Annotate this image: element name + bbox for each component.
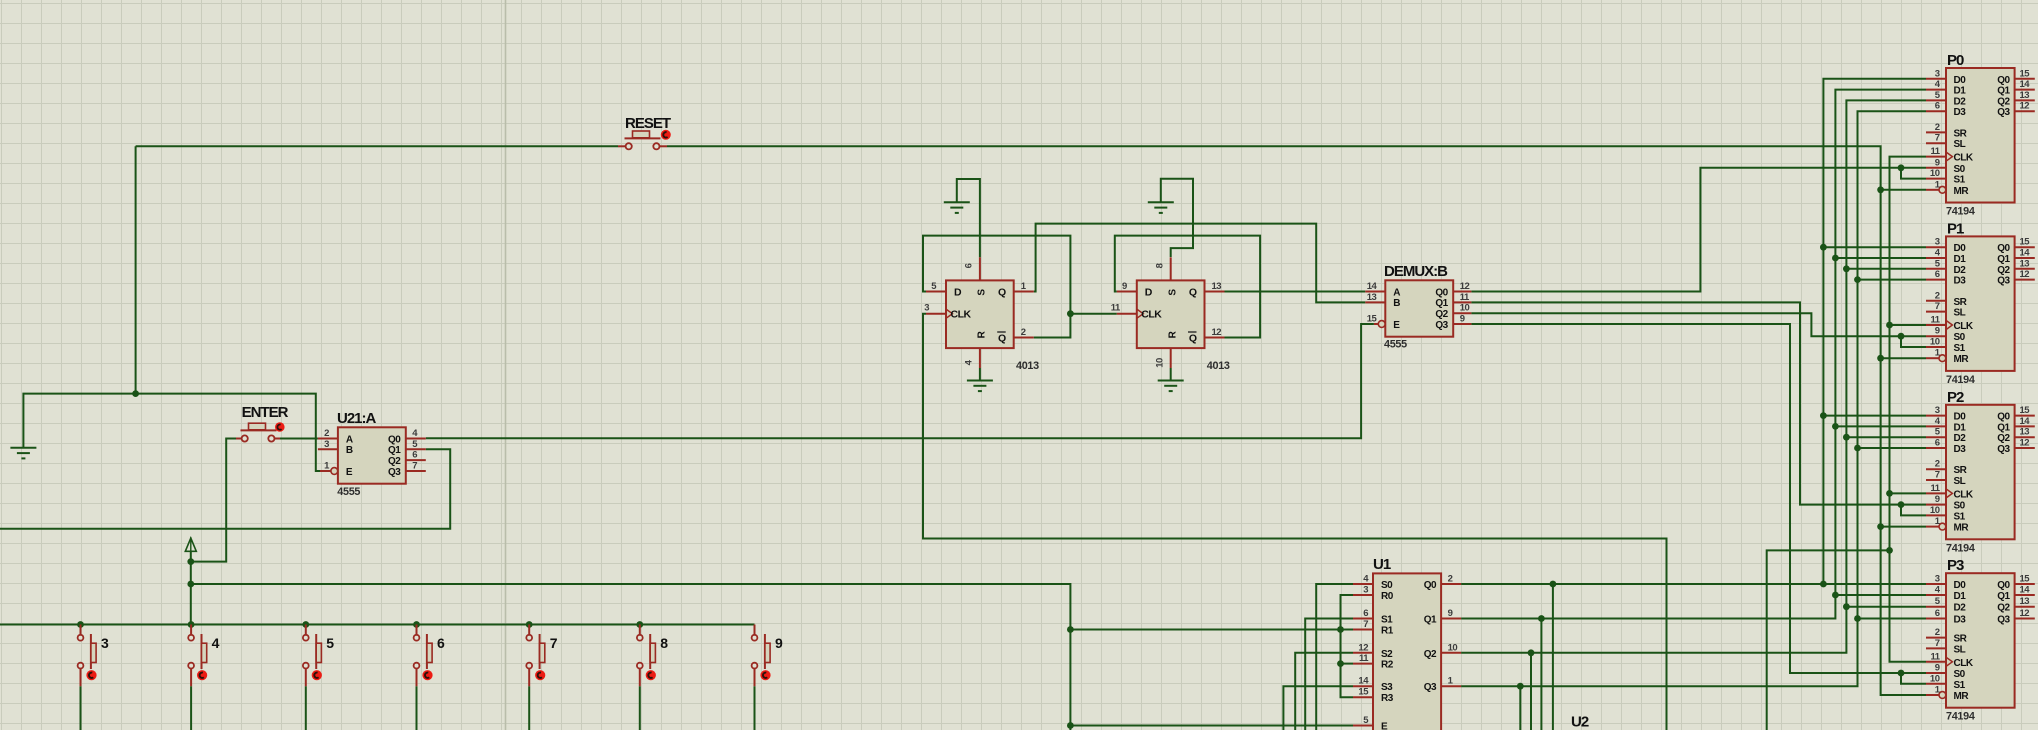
shift register P2 (74194) — [1926, 389, 2035, 555]
svg-text:2: 2 — [324, 428, 329, 439]
svg-text:E: E — [1381, 722, 1388, 730]
wire U21:A Q0 to DEMUX:B E (y438.3, up x1361.1) — [426, 324, 1374, 438]
svg-text:10: 10 — [1448, 642, 1458, 653]
key button 8 — [637, 625, 668, 687]
svg-text:A: A — [346, 434, 353, 445]
wire CLK vertical bus x1889.5 to CLK pins of P0..P3 — [1886, 157, 1926, 662]
wire FF2 Qbar feedback to D via x1260.1 and y235.6 — [1115, 236, 1260, 338]
wire FF1 Qbar feedback to D and FF2 CLK, junction at x1070.4 y313.7 — [923, 236, 1117, 338]
svg-text:D2: D2 — [1954, 265, 1967, 276]
svg-text:Q3: Q3 — [1997, 444, 2010, 455]
wire U1 S1 from U2 via x1305.2 — [1305, 619, 1353, 730]
svg-text:S0: S0 — [1954, 669, 1966, 680]
pushbutton RESET — [618, 115, 671, 149]
svg-text:7: 7 — [1935, 133, 1940, 144]
svg-text:RESET: RESET — [625, 115, 671, 132]
svg-text:7: 7 — [1935, 470, 1940, 481]
key button 9 — [752, 625, 783, 687]
svg-text:S0: S0 — [1381, 580, 1393, 591]
svg-text:11: 11 — [1111, 303, 1121, 314]
svg-text:14: 14 — [2020, 79, 2031, 90]
svg-text:Q1: Q1 — [1424, 615, 1437, 626]
svg-text:S3: S3 — [1381, 682, 1393, 693]
svg-text:14: 14 — [2020, 416, 2031, 427]
svg-text:Q1: Q1 — [1997, 86, 2010, 97]
svg-text:Q: Q — [998, 333, 1006, 345]
svg-text:9: 9 — [1935, 494, 1940, 505]
wire input terminal stem down to switch bus, branches at y561.6, y584 — [187, 552, 194, 625]
svg-text:MR: MR — [1954, 523, 1970, 534]
svg-text:Q3: Q3 — [1435, 320, 1448, 331]
svg-text:Q2: Q2 — [1997, 265, 2010, 276]
svg-text:S: S — [977, 289, 988, 296]
ground G3 above FF2 — [1148, 202, 1174, 213]
svg-text:14: 14 — [1358, 676, 1369, 687]
svg-text:D3: D3 — [1954, 615, 1967, 626]
wire FF1 Q up x1035.6, along y223.6, down x1316.2 to DEMUX:B pin B — [1034, 224, 1366, 303]
svg-text:2: 2 — [1448, 574, 1453, 585]
svg-text:11: 11 — [1460, 292, 1470, 303]
svg-text:Q1: Q1 — [1997, 254, 2010, 265]
svg-text:12: 12 — [2020, 101, 2030, 112]
ic U1 (quad latch, body continues off-screen) — [1353, 556, 1461, 730]
wire switch bus y624.5 with junctions at each key — [0, 621, 755, 628]
svg-text:7: 7 — [1363, 619, 1368, 630]
svg-text:SR: SR — [1954, 465, 1968, 476]
shift register P3 (74194) — [1926, 557, 2035, 723]
svg-text:5: 5 — [326, 635, 334, 651]
wire U1 S2 from U2 via x1295.2 — [1295, 653, 1353, 730]
svg-text:2: 2 — [1935, 627, 1940, 638]
pushbutton ENTER — [236, 404, 289, 442]
svg-text:D: D — [954, 287, 962, 299]
svg-text:13: 13 — [1367, 292, 1377, 303]
key button 6 — [414, 625, 445, 687]
wire U1 S0 from U2 via x1316.2 — [1316, 584, 1353, 730]
svg-text:8: 8 — [660, 635, 668, 651]
wire RESET-to-GND net: button left terminal, vertical x135.6, horizontal y393.6 to U21 E — [23, 146, 618, 471]
svg-text:CLK: CLK — [1954, 321, 1974, 332]
svg-text:Q: Q — [1189, 287, 1197, 299]
svg-text:6: 6 — [1363, 608, 1368, 619]
svg-text:SL: SL — [1954, 644, 1966, 655]
svg-text:12: 12 — [2020, 438, 2030, 449]
svg-text:12: 12 — [1212, 327, 1222, 338]
wire DEMUX:B Q0 to P0 S0/S1 via x1700.4 — [1471, 164, 1926, 291]
svg-text:8: 8 — [1154, 263, 1165, 268]
shift register P1 (74194) — [1926, 220, 2035, 386]
key button 7 — [526, 625, 557, 687]
svg-text:12: 12 — [2020, 608, 2030, 619]
svg-text:Q2: Q2 — [1997, 433, 2010, 444]
wire U1 R0..R3 common vertical x1340.5 — [1337, 595, 1353, 697]
svg-text:7: 7 — [1935, 638, 1940, 649]
key button 4 — [188, 625, 219, 687]
svg-text:CLK: CLK — [1954, 489, 1974, 500]
svg-text:13: 13 — [1212, 281, 1222, 292]
wire DEMUX:B Q2 to P1 S0/S1 via x1811.4 — [1471, 313, 1926, 347]
wire ENTER left terminal to switch-bus vertical — [191, 439, 236, 562]
wire RESET net: button right terminal to MR vertical bus x1880.6, MR pins of P0..P3 — [667, 146, 1926, 695]
svg-text:Q0: Q0 — [1997, 75, 2010, 86]
svg-text:6: 6 — [964, 263, 975, 268]
svg-text:15: 15 — [2020, 68, 2031, 79]
svg-text:SL: SL — [1954, 476, 1966, 487]
svg-text:11: 11 — [1930, 146, 1940, 157]
svg-text:Q0: Q0 — [1997, 243, 2010, 254]
svg-text:Q3: Q3 — [1997, 615, 2010, 626]
svg-text:11: 11 — [1930, 315, 1940, 326]
svg-text:13: 13 — [2020, 596, 2030, 607]
svg-text:B: B — [346, 445, 353, 456]
svg-text:2: 2 — [1935, 122, 1940, 133]
svg-text:Q2: Q2 — [1435, 309, 1448, 320]
svg-text:4013: 4013 — [1207, 360, 1230, 372]
svg-text:4555: 4555 — [1384, 339, 1407, 351]
wire FF2 RESET pin to ground G5 — [1170, 368, 1172, 381]
svg-text:3: 3 — [1363, 585, 1368, 596]
svg-text:6: 6 — [1935, 608, 1940, 619]
svg-text:D1: D1 — [1954, 591, 1967, 602]
svg-text:SR: SR — [1954, 297, 1968, 308]
svg-text:Q2: Q2 — [1997, 96, 2010, 107]
svg-text:74194: 74194 — [1946, 206, 1975, 218]
svg-text:6: 6 — [1935, 101, 1940, 112]
svg-text:Q1: Q1 — [388, 445, 401, 456]
svg-text:12: 12 — [2020, 269, 2030, 280]
svg-text:14: 14 — [1367, 281, 1378, 292]
svg-text:7: 7 — [1935, 301, 1940, 312]
svg-text:2: 2 — [1021, 327, 1026, 338]
wire U1 Q3 net y686.2 up bus x1857.5 to D3 pins, tap down x1520.3 — [1461, 111, 1926, 730]
svg-text:D1: D1 — [1954, 86, 1967, 97]
svg-text:Q: Q — [998, 287, 1006, 299]
wire U1 Q1 net y618.5 up bus x1835.4 to D1 pins, tap down x1541.4 — [1461, 90, 1926, 730]
svg-text:D1: D1 — [1954, 422, 1967, 433]
svg-text:11: 11 — [1930, 483, 1940, 494]
svg-text:4: 4 — [212, 635, 220, 651]
svg-text:15: 15 — [2020, 574, 2031, 585]
svg-text:4555: 4555 — [337, 486, 360, 498]
svg-text:CLK: CLK — [1141, 309, 1162, 321]
key button 5 — [303, 625, 334, 687]
ground G1 (far left, U21 enable net) — [10, 448, 36, 459]
wire CLK feed from U2 up x1766.7, along y550.4 to CLK bus x1889.5 — [1767, 547, 1893, 730]
svg-text:7: 7 — [550, 635, 558, 651]
svg-text:CLK: CLK — [1954, 658, 1974, 669]
wire key bottom leads going off-screen bottom — [81, 686, 755, 730]
svg-text:R0: R0 — [1381, 591, 1394, 602]
svg-text:12: 12 — [1358, 642, 1368, 653]
svg-text:U1: U1 — [1373, 556, 1391, 573]
node input terminal (keypad common) — [185, 537, 196, 551]
flip-flop FF1 (4013, left) — [924, 257, 1039, 372]
svg-text:15: 15 — [2020, 237, 2031, 248]
svg-text:9: 9 — [1460, 314, 1465, 325]
svg-text:D: D — [1145, 287, 1153, 299]
ground G2 above FF1 — [944, 202, 970, 213]
svg-text:13: 13 — [2020, 90, 2030, 101]
wire keypad common row y584 to vertical x1070.4 down to U1 R1/E and U2 — [191, 584, 1353, 730]
svg-text:A: A — [1393, 287, 1400, 298]
wire DEMUX:B Q3 to P3 S0/S1 via x1790 — [1471, 324, 1926, 684]
svg-text:E: E — [1393, 320, 1400, 331]
ic U2 (off-screen below, reference label only) — [1571, 714, 1589, 730]
svg-text:P1: P1 — [1947, 220, 1964, 237]
svg-text:10: 10 — [1154, 358, 1165, 368]
svg-text:D2: D2 — [1954, 603, 1967, 614]
svg-text:13: 13 — [2020, 427, 2030, 438]
svg-text:Q3: Q3 — [1997, 107, 2010, 118]
svg-text:10: 10 — [1930, 337, 1940, 348]
svg-text:Q0: Q0 — [1435, 287, 1448, 298]
svg-text:14: 14 — [2020, 585, 2031, 596]
svg-text:11: 11 — [1359, 653, 1369, 664]
svg-text:10: 10 — [1460, 303, 1470, 314]
svg-text:6: 6 — [1935, 269, 1940, 280]
svg-text:6: 6 — [412, 450, 417, 461]
key button 3 — [78, 625, 109, 687]
svg-text:U2: U2 — [1571, 714, 1589, 730]
wire U21:A Q1 down x450.2, left along y528.7 off-screen — [0, 449, 450, 528]
svg-text:6: 6 — [437, 635, 445, 651]
svg-text:MR: MR — [1954, 691, 1970, 702]
ground G4 below FF1 — [967, 381, 993, 392]
svg-text:Q3: Q3 — [1424, 682, 1437, 693]
svg-text:Q0: Q0 — [1997, 580, 2010, 591]
svg-text:15: 15 — [1358, 687, 1369, 698]
svg-text:3: 3 — [1935, 237, 1940, 248]
svg-text:Q2: Q2 — [1997, 603, 2010, 614]
svg-text:Q1: Q1 — [1997, 591, 2010, 602]
svg-text:E: E — [346, 467, 353, 478]
svg-text:14: 14 — [2020, 248, 2031, 259]
svg-text:S1: S1 — [1954, 680, 1966, 691]
svg-text:15: 15 — [1367, 314, 1378, 325]
svg-text:U21:A: U21:A — [337, 410, 377, 427]
svg-text:9: 9 — [1935, 157, 1940, 168]
svg-text:D3: D3 — [1954, 444, 1967, 455]
svg-text:9: 9 — [1122, 281, 1127, 292]
svg-text:P2: P2 — [1947, 389, 1964, 406]
svg-text:10: 10 — [1930, 505, 1940, 516]
svg-text:Q1: Q1 — [1435, 298, 1448, 309]
svg-text:Q: Q — [1189, 333, 1197, 345]
svg-text:D2: D2 — [1954, 433, 1967, 444]
svg-text:SR: SR — [1954, 128, 1968, 139]
svg-text:D3: D3 — [1954, 107, 1967, 118]
svg-text:10: 10 — [1930, 168, 1940, 179]
svg-text:4013: 4013 — [1016, 360, 1039, 372]
svg-text:6: 6 — [1935, 438, 1940, 449]
svg-text:ENTER: ENTER — [242, 404, 289, 421]
svg-text:Q0: Q0 — [1997, 412, 2010, 423]
svg-text:SL: SL — [1954, 139, 1966, 150]
wire U1 S3 from U2 via x1283.4 — [1283, 686, 1353, 730]
svg-text:11: 11 — [1930, 651, 1940, 662]
svg-text:CLK: CLK — [1954, 153, 1974, 164]
wire FF1 SET pin to ground G2 — [957, 179, 980, 257]
svg-text:13: 13 — [2020, 258, 2030, 269]
svg-text:R2: R2 — [1381, 660, 1394, 671]
svg-text:Q0: Q0 — [1424, 580, 1437, 591]
svg-text:3: 3 — [924, 303, 929, 314]
wire U1 Q2 net y652.8 up bus x1846.4 to D2 pins, tap down x1531 — [1461, 100, 1926, 730]
svg-text:S1: S1 — [1954, 343, 1966, 354]
svg-text:9: 9 — [1935, 663, 1940, 674]
demux DEMUX:B (4555) — [1365, 263, 1471, 351]
svg-text:3: 3 — [1935, 68, 1940, 79]
svg-text:D0: D0 — [1954, 580, 1967, 591]
svg-text:D3: D3 — [1954, 276, 1967, 287]
svg-text:P3: P3 — [1947, 557, 1964, 574]
svg-text:10: 10 — [1930, 673, 1940, 684]
svg-text:2: 2 — [1935, 290, 1940, 301]
demux U21:A (4555) — [318, 410, 426, 498]
svg-text:15: 15 — [2020, 405, 2031, 416]
svg-text:D0: D0 — [1954, 243, 1967, 254]
svg-text:Q3: Q3 — [1997, 276, 2010, 287]
wire ENTER right terminal to U21:A pin A — [280, 438, 318, 440]
svg-text:S1: S1 — [1954, 175, 1966, 186]
svg-text:DEMUX:B: DEMUX:B — [1384, 263, 1448, 280]
svg-text:D2: D2 — [1954, 96, 1967, 107]
wire FF2 Q to DEMUX:B pin A along y291.5 — [1225, 291, 1366, 293]
svg-text:S1: S1 — [1954, 511, 1966, 522]
svg-text:D0: D0 — [1954, 75, 1967, 86]
svg-text:2: 2 — [1935, 459, 1940, 470]
svg-text:P0: P0 — [1947, 52, 1964, 69]
shift register P0 (74194) — [1926, 52, 2035, 218]
svg-text:S0: S0 — [1954, 332, 1966, 343]
svg-text:74194: 74194 — [1946, 711, 1975, 723]
svg-text:S0: S0 — [1954, 164, 1966, 175]
svg-text:S2: S2 — [1381, 649, 1393, 660]
svg-text:S0: S0 — [1954, 501, 1966, 512]
svg-text:R1: R1 — [1381, 626, 1394, 637]
svg-text:9: 9 — [1448, 608, 1453, 619]
svg-text:9: 9 — [1935, 326, 1940, 337]
svg-text:Q0: Q0 — [388, 434, 401, 445]
svg-text:S: S — [1167, 289, 1178, 296]
svg-text:3: 3 — [1935, 574, 1940, 585]
svg-text:Q2: Q2 — [1424, 649, 1437, 660]
svg-text:CLK: CLK — [951, 309, 972, 321]
wire DEMUX:B Q1 to P2 S0/S1 via x1800 — [1471, 302, 1926, 515]
svg-text:SR: SR — [1954, 634, 1968, 645]
svg-text:Q3: Q3 — [388, 467, 401, 478]
svg-text:3: 3 — [1935, 405, 1940, 416]
ground G5 below FF2 — [1158, 381, 1184, 392]
svg-text:R3: R3 — [1381, 693, 1394, 704]
svg-text:12: 12 — [1460, 281, 1470, 292]
svg-text:Q1: Q1 — [1997, 422, 2010, 433]
svg-text:7: 7 — [412, 461, 417, 472]
svg-text:D1: D1 — [1954, 254, 1967, 265]
svg-text:9: 9 — [775, 635, 783, 651]
wire FF1 RESET pin to ground G4 — [979, 368, 981, 381]
svg-text:3: 3 — [101, 635, 109, 651]
svg-text:3: 3 — [324, 439, 329, 450]
svg-text:D0: D0 — [1954, 412, 1967, 423]
svg-text:Q2: Q2 — [388, 456, 401, 467]
wire FF1 CLK left-down x923, along y538.5, down x1666.5 to U2 — [923, 314, 1667, 730]
svg-text:MR: MR — [1954, 354, 1970, 365]
svg-text:SL: SL — [1954, 308, 1966, 319]
svg-text:S1: S1 — [1381, 615, 1393, 626]
svg-text:74194: 74194 — [1946, 374, 1975, 386]
svg-text:74194: 74194 — [1946, 542, 1975, 554]
flip-flop FF2 (4013, right) — [1111, 257, 1230, 372]
svg-text:B: B — [1393, 298, 1400, 309]
wire FF2 SET pin to ground G3 (jogged) — [1161, 179, 1193, 257]
svg-text:MR: MR — [1954, 186, 1970, 197]
wire U1 Q0 net y584 to P3 D0 and vertical bus x1823.4 to D0 of P0..P2, tap down x1552.9 — [1461, 79, 1926, 730]
